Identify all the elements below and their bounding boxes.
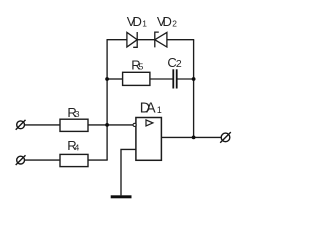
label R5 — [131, 57, 143, 72]
input terminal 1 — [16, 120, 26, 130]
wire: op-amp output (y=137.5) — [162, 136, 222, 138]
svg-text:5: 5 — [139, 62, 144, 72]
junction node: right vertical / C2 branch — [192, 77, 196, 81]
wire: input 2 to R4 — [24, 159, 60, 161]
junction node: left vertical / R3 wire — [105, 123, 109, 127]
resistor R5 — [123, 72, 150, 85]
label DA1 — [140, 101, 162, 117]
svg-text:1: 1 — [142, 18, 147, 28]
junction node: right vertical / output wire — [192, 136, 196, 140]
wire: left feedback vertical (x=107) — [106, 40, 108, 160]
wire: top limiter branch (y=40) — [107, 39, 195, 41]
capacitor C2 — [173, 69, 176, 88]
resistor R4 — [60, 154, 88, 166]
diode VD2 (zener, cathode left) — [155, 32, 167, 47]
wire: right feedback vertical (x=193.5) — [193, 40, 195, 138]
svg-text:2: 2 — [172, 18, 177, 28]
label VD1 — [127, 14, 148, 29]
label R3 — [67, 105, 79, 120]
label R4 — [67, 138, 79, 153]
label C2 — [167, 55, 182, 70]
wire: R4 to summing node — [88, 159, 108, 161]
wire: input 1 to R3 — [24, 124, 60, 126]
diode VD1 (zener, cathode right) — [127, 32, 137, 47]
svg-text:2: 2 — [176, 58, 182, 70]
svg-text:VD: VD — [127, 14, 142, 29]
ground — [111, 195, 132, 198]
svg-text:VD: VD — [157, 14, 172, 29]
input terminal 2 — [16, 155, 26, 165]
label VD2 — [157, 14, 177, 29]
junction node: left vertical / R5 branch — [105, 77, 109, 81]
wire: R5/C2 feedback branch (y=79) — [107, 78, 194, 80]
svg-text:4: 4 — [75, 142, 80, 152]
wire: R3 to inverting input node — [88, 124, 133, 126]
resistor R3 — [60, 119, 88, 131]
svg-text:DA: DA — [140, 101, 156, 117]
op-amp DA1 — [133, 118, 161, 161]
wire: non-inverting input to ground — [121, 149, 136, 195]
svg-text:1: 1 — [157, 105, 162, 115]
svg-text:3: 3 — [75, 109, 80, 119]
output terminal — [220, 132, 231, 143]
